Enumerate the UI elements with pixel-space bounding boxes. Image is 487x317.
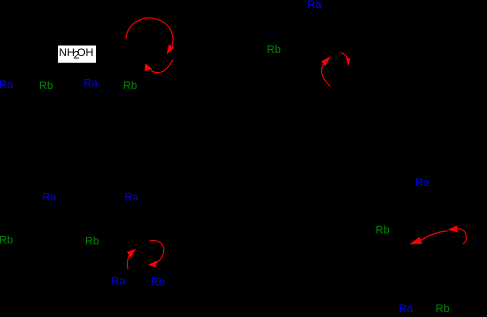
svg-text:Ra: Ra <box>399 303 414 312</box>
svg-text:Rb: Rb <box>123 80 137 92</box>
svg-text:Rb: Rb <box>0 235 13 247</box>
svg-text:Ra: Ra <box>415 177 430 189</box>
svg-text:Ra: Ra <box>125 191 140 203</box>
svg-text:Rb: Rb <box>376 224 390 236</box>
curved arrow long (product2) <box>409 231 447 245</box>
svg-text:Rb: Rb <box>151 277 165 289</box>
curved arrow up (product1) <box>127 249 136 270</box>
svg-text:Ra: Ra <box>111 275 126 287</box>
curved arrow small (reactant1 bottom) <box>145 60 173 73</box>
svg-text:Rb: Rb <box>267 44 281 56</box>
svg-text:Ra: Ra <box>84 78 99 90</box>
svg-text:Rb: Rb <box>436 303 450 312</box>
svg-text:Ra: Ra <box>42 192 57 204</box>
svg-text:Rb: Rb <box>39 80 53 92</box>
svg-text:NH: NH <box>59 47 75 59</box>
svg-text:Rb: Rb <box>85 236 99 248</box>
curved arrow hook (product1) <box>148 241 164 268</box>
svg-text:Ra: Ra <box>307 0 322 11</box>
svg-text:OH: OH <box>77 47 94 59</box>
curved arrow right (reactant2) <box>341 53 351 67</box>
curved arrow hook (product2) <box>448 225 467 244</box>
curved arrow left (reactant2) <box>321 56 331 87</box>
curved arrow big circle (reactant1) <box>126 18 174 54</box>
svg-text:Ra: Ra <box>0 79 14 91</box>
reagent box NH2OH <box>58 46 96 63</box>
